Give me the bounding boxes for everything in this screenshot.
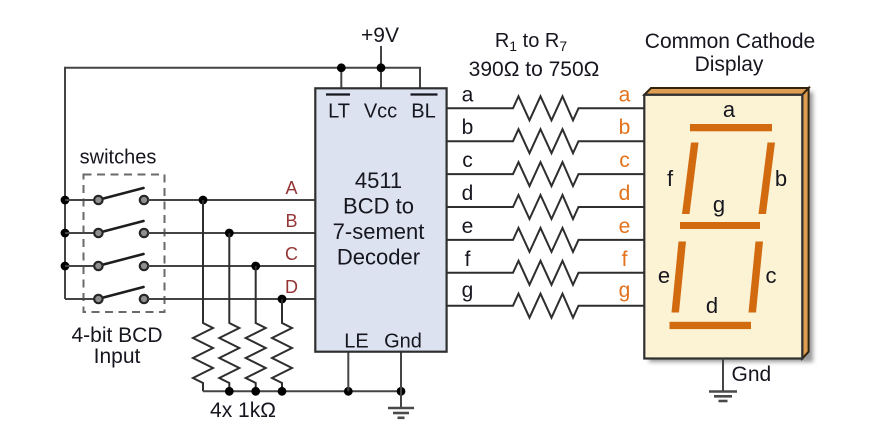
wire: rail to switch 1 pole xyxy=(65,199,94,201)
node: bus-LT junction xyxy=(337,63,346,72)
svg-text:b: b xyxy=(775,166,787,191)
display front face xyxy=(644,95,802,359)
svg-text:Vcc: Vcc xyxy=(364,101,397,123)
svg-text:b: b xyxy=(619,116,631,139)
pin label LT with overline xyxy=(326,95,350,123)
svg-text:d: d xyxy=(619,182,631,205)
IC U1: 4511 BCD to 7-segment decoder xyxy=(315,88,446,351)
svg-text:Input: Input xyxy=(94,345,141,368)
svg-text:c: c xyxy=(766,263,777,288)
IC body text xyxy=(333,168,425,270)
segment d xyxy=(670,322,752,329)
node: R10 to ground bus xyxy=(251,387,260,396)
node: B to pulldown resistor xyxy=(225,229,234,238)
svg-text:BL: BL xyxy=(411,101,435,123)
resistor R8 (1k pulldown on A) xyxy=(193,200,213,391)
switch SW4 xyxy=(94,287,148,303)
svg-text:D: D xyxy=(285,277,298,297)
svg-text:a: a xyxy=(723,97,736,122)
ground symbol (decoder) xyxy=(388,408,414,418)
segment c xyxy=(749,242,764,313)
segment g xyxy=(680,222,760,229)
switch SW1 xyxy=(94,188,148,204)
resistor R9 (1k pulldown on B) xyxy=(219,233,239,391)
svg-text:f: f xyxy=(667,166,674,191)
display DS1: 7-segment common cathode xyxy=(644,88,813,362)
display drop shadow xyxy=(649,92,813,362)
ground symbol (display) xyxy=(709,392,737,402)
svg-text:B: B xyxy=(285,211,297,231)
resistor R11 (1k pulldown on D) xyxy=(272,299,292,391)
svg-text:Decoder: Decoder xyxy=(337,245,420,270)
segment e xyxy=(672,242,687,313)
node: R9 to ground bus xyxy=(225,387,234,396)
display top bevel xyxy=(644,88,808,95)
svg-text:4x 1kΩ: 4x 1kΩ xyxy=(210,399,276,422)
svg-text:+9V: +9V xyxy=(361,24,399,47)
switch enclosure (dashed box) xyxy=(84,175,165,313)
wire: +9V stub down to rail xyxy=(380,46,382,68)
svg-text:d: d xyxy=(462,182,474,205)
svg-text:a: a xyxy=(619,83,631,106)
svg-text:C: C xyxy=(285,244,298,264)
wire: top supply bus from left rail to BL pin xyxy=(65,68,420,89)
node: R11 to ground bus xyxy=(278,387,287,396)
svg-text:7-sement: 7-sement xyxy=(333,219,425,244)
svg-text:g: g xyxy=(619,279,631,302)
wire + resistor R6 (segment f) xyxy=(447,261,645,285)
wire: rail to switch 2 pole xyxy=(65,232,94,234)
svg-text:e: e xyxy=(619,215,631,238)
wire + resistor R3 (segment c) xyxy=(447,162,645,186)
svg-text:g: g xyxy=(713,192,725,217)
wire: LE pin stub xyxy=(347,352,349,392)
wire: LT pin stub xyxy=(340,68,342,89)
svg-text:4511: 4511 xyxy=(355,168,402,193)
svg-text:A: A xyxy=(285,178,297,198)
node: rail to switch 3 xyxy=(61,262,70,271)
svg-text:Common Cathode: Common Cathode xyxy=(645,30,815,53)
wire: switch 4 to decoder input D xyxy=(148,298,315,300)
node: C to pulldown resistor xyxy=(251,262,260,271)
svg-text:4-bit BCD: 4-bit BCD xyxy=(71,324,162,347)
wire: display cathode to ground xyxy=(722,359,724,392)
svg-text:390Ω to 750Ω: 390Ω to 750Ω xyxy=(469,58,600,81)
wire: left supply rail feeding switch poles xyxy=(64,67,66,299)
svg-text:e: e xyxy=(658,263,670,288)
svg-text:d: d xyxy=(706,293,718,318)
wire: rail to switch 3 pole xyxy=(65,265,94,267)
node: rail to switch 2 xyxy=(61,229,70,238)
node: A to pulldown resistor xyxy=(199,196,208,205)
wire + resistor R4 (segment d) xyxy=(447,195,645,219)
svg-text:b: b xyxy=(462,116,474,139)
svg-text:f: f xyxy=(622,248,628,271)
wire: Vcc pin stub xyxy=(380,68,382,89)
segment f xyxy=(682,143,699,215)
pin label BL with overline xyxy=(411,95,438,123)
segment b xyxy=(759,143,776,215)
svg-text:R1 to R7: R1 to R7 xyxy=(495,30,568,54)
node: Gnd pin to ground bus xyxy=(397,387,406,396)
svg-text:Gnd: Gnd xyxy=(732,363,772,386)
wire: Gnd pin to ground symbol xyxy=(400,352,402,408)
svg-text:LE: LE xyxy=(344,331,368,353)
resistor R10 (1k pulldown on C) xyxy=(246,266,266,391)
display right bevel xyxy=(802,88,808,359)
switch SW3 xyxy=(94,254,148,270)
svg-text:BCD to: BCD to xyxy=(343,194,414,219)
svg-text:Gnd: Gnd xyxy=(384,331,422,353)
wire: bottom ground bus xyxy=(203,390,401,392)
svg-text:switches: switches xyxy=(80,147,157,169)
wire: switch 1 to decoder input A xyxy=(148,199,315,201)
node: D to pulldown resistor xyxy=(278,295,287,304)
segment a xyxy=(690,124,772,131)
switch SW2 xyxy=(94,221,148,237)
wire + resistor R1 (segment a) xyxy=(447,96,645,120)
node: LE pin to ground bus xyxy=(344,387,353,396)
svg-text:Display: Display xyxy=(695,53,764,76)
wire + resistor R7 (segment g) xyxy=(447,294,645,318)
wire: switch 3 to decoder input C xyxy=(148,265,315,267)
wire + resistor R5 (segment e) xyxy=(447,228,645,252)
svg-text:f: f xyxy=(465,248,471,271)
svg-text:c: c xyxy=(619,149,630,172)
svg-text:c: c xyxy=(462,149,473,172)
wire: switch 2 to decoder input B xyxy=(148,232,315,234)
node: bus-Vcc junction xyxy=(377,63,386,72)
svg-text:LT: LT xyxy=(328,101,350,123)
node: rail to switch 1 xyxy=(61,196,70,205)
wire + resistor R2 (segment b) xyxy=(447,129,645,153)
wire: rail to switch 4 pole xyxy=(65,298,94,300)
svg-text:a: a xyxy=(462,83,474,106)
svg-text:e: e xyxy=(462,215,474,238)
svg-text:g: g xyxy=(462,279,474,302)
